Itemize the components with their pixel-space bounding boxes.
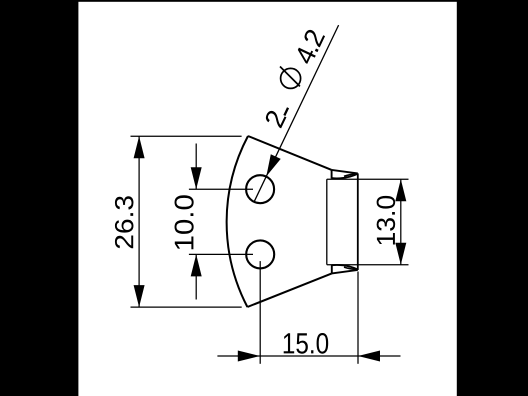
dim 10.0 bottom extension line (189, 253, 253, 255)
dim 15.0 label (284, 333, 329, 354)
dim 26.3 top extension line (131, 135, 242, 137)
bottom ear inner sliver (344, 267, 358, 270)
dim 10.0 label (175, 195, 194, 249)
top ear left vertical (331, 170, 333, 179)
leader arrow (266, 154, 280, 176)
leader line (254, 25, 339, 202)
hole top (246, 175, 274, 203)
dim 10.0 lower dimension line (195, 254, 197, 299)
hole bottom (246, 240, 274, 268)
bottom ear curl curve (332, 265, 358, 270)
dim 26.3 bottom extension line (131, 306, 242, 308)
part outline: left arc (227, 136, 248, 307)
leader label diameter symbol slash (280, 67, 300, 87)
dim 26.3 dimension line (138, 136, 140, 307)
dim 10.0 top extension line (189, 188, 253, 190)
dim 15.0 left arrow (238, 351, 260, 362)
flange bottom edge and 13.0 bottom extension line (327, 264, 409, 266)
part outline: bottom edge (247, 273, 331, 307)
dim 26.3 top arrow (134, 136, 145, 158)
dim 13.0 bottom arrow (395, 243, 406, 265)
bottom ear left vertical (331, 265, 333, 274)
flange left edge (326, 179, 328, 265)
dim 10.0 lower arrow (191, 254, 202, 276)
dim 13.0 top arrow (395, 179, 406, 201)
top ear inner sliver (344, 174, 358, 177)
flange top edge and 13.0 top extension line (327, 178, 409, 180)
dim 10.0 upper arrow (191, 167, 202, 189)
dim 15.0 right arrow (358, 351, 380, 362)
dim 15.0 right extension line (357, 272, 359, 364)
dim 13.0 dimension line (400, 179, 402, 265)
dim 15.0 left extension line (259, 261, 261, 364)
dim 15.0 dimension line (217, 355, 400, 357)
bottom ear outer line (332, 270, 358, 274)
dim 13.0 label (377, 196, 396, 245)
leader label diameter symbol circle (281, 68, 301, 88)
dim 26.3 label (115, 196, 134, 248)
leader label text 2- 4.2 (266, 30, 325, 128)
part outline: top edge (248, 136, 332, 170)
part outline: right flange edge (357, 173, 359, 270)
top ear outer line (332, 170, 358, 174)
top ear curl curve (332, 174, 358, 179)
dim 10.0 upper dimension line (195, 144, 197, 190)
white drawing sheet (78, 2, 456, 396)
dim 26.3 bottom arrow (134, 285, 145, 307)
